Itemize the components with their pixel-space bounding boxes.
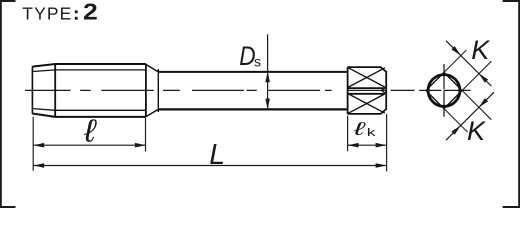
svg-text:L: L [209, 139, 225, 171]
svg-text:TYPE: TYPE [22, 4, 72, 24]
svg-text:k: k [367, 127, 377, 139]
svg-text:2: 2 [83, 0, 98, 25]
svg-text:s: s [254, 54, 261, 70]
svg-text:K: K [471, 35, 490, 65]
svg-text:ℓ: ℓ [353, 118, 367, 139]
svg-text:ℓ: ℓ [83, 114, 98, 149]
svg-text:K: K [467, 116, 486, 146]
